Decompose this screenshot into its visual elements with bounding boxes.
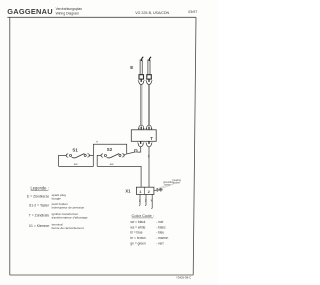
svg-text:rt: rt	[96, 140, 98, 144]
svg-text:Legende :: Legende :	[31, 186, 49, 191]
svg-text:sw: sw	[138, 199, 140, 202]
switch S1	[66, 153, 89, 157]
svg-text:GAGGENAU: GAGGENAU	[7, 7, 53, 16]
svg-text:2: 2	[148, 190, 150, 194]
border frame	[7, 17, 196, 275]
svg-text:Y3426-98-C: Y3426-98-C	[176, 275, 191, 279]
svg-text:Wiring Diagram: Wiring Diagram	[56, 12, 80, 16]
svg-text:- bleu: - bleu	[156, 231, 164, 235]
svg-text:screw: screw	[164, 183, 170, 186]
transformer T	[131, 130, 156, 142]
spark plug E2	[146, 57, 153, 85]
svg-text:1: 1	[139, 190, 141, 194]
svg-text:ws = white: ws = white	[130, 225, 145, 229]
svg-text:03/97: 03/97	[188, 10, 197, 14]
svg-text:cooker: cooker	[173, 181, 180, 184]
svg-text:T = Zündtrafo: T = Zündtrafo	[29, 214, 50, 218]
wire S1 right lead, top rail rt, drop to junction	[89, 144, 127, 155]
svg-text:interrupteur de pression: interrupteur de pression	[52, 206, 85, 210]
ignition cable E1 (wire)	[141, 85, 142, 125]
svg-text:E = Zündkerze: E = Zündkerze	[27, 194, 49, 198]
wire T right pin down to X1 terminal 2	[148, 147, 150, 187]
svg-text:- vert: - vert	[156, 241, 163, 245]
leader line to screw	[159, 186, 165, 188]
wire T left pin to switch junction	[137, 147, 141, 152]
plug connectors at transformer bottom	[137, 141, 152, 147]
svg-text:E: E	[130, 65, 133, 70]
wire connector to S2 output	[127, 152, 135, 154]
wire S2 right contact to junction	[123, 154, 127, 155]
svg-text:VG 225-B, USA/CDN: VG 225-B, USA/CDN	[135, 11, 169, 15]
svg-text:bougie: bougie	[52, 196, 62, 200]
leader line to earth	[162, 184, 173, 188]
svg-text:borne de raccordement: borne de raccordement	[52, 226, 84, 230]
svg-text:X1: X1	[125, 188, 131, 193]
spark plug E1	[138, 57, 145, 85]
wire X1 to grounding screw	[154, 189, 156, 191]
wire riser to S2 left contact	[97, 155, 101, 166]
svg-text:S2: S2	[107, 147, 113, 152]
wire stub ground	[150, 195, 153, 209]
svg-text:sw: sw	[110, 162, 115, 166]
svg-text:Color Code :: Color Code :	[132, 213, 154, 218]
svg-text:- blanc: - blanc	[156, 225, 166, 229]
svg-text:S1: S1	[72, 147, 78, 152]
ignition cable E2 (wire)	[148, 85, 149, 125]
wire bottom rail sw to X1	[97, 166, 141, 187]
switch S2	[101, 153, 124, 157]
svg-text:sw: sw	[147, 155, 150, 158]
svg-text:bl = blue: bl = blue	[130, 231, 142, 235]
svg-text:sw = black: sw = black	[130, 220, 145, 224]
svg-text:S1-2 = Taster: S1-2 = Taster	[29, 204, 50, 208]
wire stub below X1 pin 2	[144, 195, 147, 206]
svg-text:gn: gn	[150, 199, 152, 202]
grounding screw	[156, 188, 159, 192]
svg-text:transformateur d'allumage: transformateur d'allumage	[52, 216, 88, 220]
svg-text:X1 = Klemme: X1 = Klemme	[29, 224, 50, 228]
wire bottom loop under S1	[59, 155, 94, 166]
svg-text:gn = green: gn = green	[130, 241, 146, 245]
plug connectors at transformer top	[138, 125, 152, 130]
svg-text:sw: sw	[74, 162, 79, 166]
svg-text:br = brown: br = brown	[130, 236, 145, 240]
plug connector on wire	[134, 150, 137, 152]
earth symbol	[159, 188, 163, 192]
wire stub below X1 pin 1	[138, 195, 141, 206]
wire S1 left lead	[59, 155, 67, 166]
svg-text:T: T	[150, 136, 153, 141]
svg-text:Verdrahtungsplan: Verdrahtungsplan	[56, 7, 83, 11]
terminal block X1	[136, 187, 154, 194]
svg-text:ws: ws	[144, 199, 146, 203]
svg-text:- noir: - noir	[156, 220, 164, 224]
svg-text:- marron: - marron	[156, 236, 168, 240]
